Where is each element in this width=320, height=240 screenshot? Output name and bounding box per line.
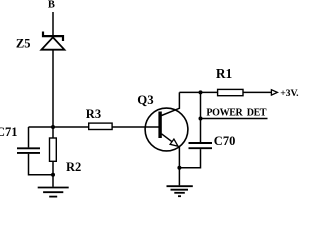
svg-text:POWER DET: POWER DET xyxy=(206,108,267,119)
svg-text:C71: C71 xyxy=(0,125,18,139)
svg-text:Z5: Z5 xyxy=(16,36,31,50)
svg-text:C70: C70 xyxy=(214,134,236,148)
svg-text:B: B xyxy=(48,0,55,11)
svg-text:Q3: Q3 xyxy=(137,93,153,107)
svg-text:+3V.: +3V. xyxy=(280,88,299,99)
svg-text:R3: R3 xyxy=(86,107,101,121)
svg-text:R1: R1 xyxy=(216,66,232,81)
svg-text:R2: R2 xyxy=(66,160,81,174)
